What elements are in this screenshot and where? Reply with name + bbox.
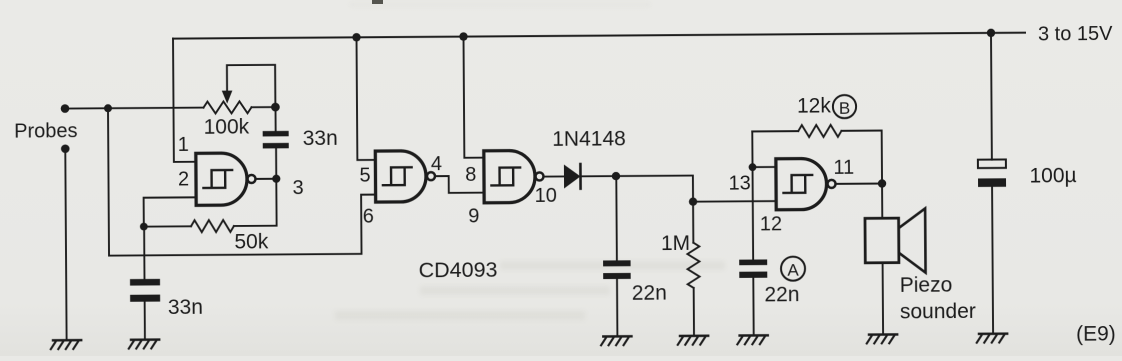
junction pin 13 node bbox=[749, 163, 757, 171]
wire 100u to ground bbox=[992, 187, 993, 334]
svg-text:10: 10 bbox=[535, 185, 557, 207]
junction rail / pin 8 branch bbox=[459, 32, 467, 40]
NAND Schmitt gate U1a body bbox=[196, 153, 247, 205]
schmitt hysteresis symbol U1c bbox=[491, 167, 520, 185]
svg-text:1: 1 bbox=[178, 134, 189, 156]
wire 1M node to pin 12 bbox=[693, 200, 776, 203]
NAND Schmitt gate U1d body bbox=[776, 158, 827, 209]
svg-text:Probes: Probes bbox=[14, 120, 78, 142]
gate U1a output bubble bbox=[247, 175, 255, 183]
svg-text:100µ: 100µ bbox=[1029, 164, 1076, 187]
NAND Schmitt gate U1c body bbox=[484, 150, 535, 202]
svg-text:CD4093: CD4093 bbox=[419, 258, 498, 283]
svg-text:8: 8 bbox=[465, 164, 476, 186]
junction 100k right node bbox=[271, 103, 280, 112]
wire 100k to right node bbox=[251, 106, 275, 108]
junction diode output node bbox=[612, 172, 620, 180]
wire probe node to gate2 pin 6 bbox=[108, 106, 376, 255]
wire rail to pin 8 bbox=[464, 36, 484, 157]
wire diode node to 22n bbox=[615, 176, 618, 260]
ground (lower probe) bbox=[51, 340, 81, 349]
capacitor 33n upper plate 2 bbox=[263, 143, 289, 149]
svg-text:6: 6 bbox=[363, 206, 374, 228]
capacitor 22n plate 1 bbox=[603, 260, 631, 266]
gate U1c output bubble bbox=[535, 172, 543, 180]
svg-text:Piezo: Piezo bbox=[900, 274, 953, 297]
resistor 12k bbox=[798, 125, 841, 137]
svg-text:1M: 1M bbox=[661, 232, 690, 255]
circled label B bbox=[833, 95, 856, 118]
junction pin2 / 50k node bbox=[140, 223, 148, 231]
capacitor 22n A plate 1 bbox=[739, 259, 767, 265]
svg-text:B: B bbox=[839, 99, 850, 118]
schmitt hysteresis symbol U1a bbox=[203, 170, 232, 188]
svg-text:sounder: sounder bbox=[900, 300, 976, 324]
potentiometer wiper arm wire bbox=[227, 65, 275, 108]
wire 1M to ground bbox=[693, 288, 695, 336]
svg-text:12: 12 bbox=[760, 213, 782, 235]
ground (22n A) bbox=[737, 335, 767, 344]
wire 1M node to resistor bbox=[692, 202, 694, 243]
svg-text:1N4148: 1N4148 bbox=[552, 127, 626, 151]
ground (piezo) bbox=[867, 334, 897, 343]
wire 12k left bbox=[752, 130, 798, 132]
wire 22n to ground bbox=[616, 279, 618, 336]
wire gate2 output jog to pin 9 bbox=[435, 176, 484, 193]
wire output node to piezo bbox=[881, 184, 883, 219]
wiper arrowhead bbox=[222, 91, 233, 104]
wire pin13 node vertical 12k-to-22nA bbox=[751, 131, 754, 259]
wire 12k right to output node bbox=[841, 131, 882, 184]
svg-text:22n: 22n bbox=[764, 283, 799, 306]
svg-text:(E9): (E9) bbox=[1076, 322, 1116, 345]
piezo sounder cone bbox=[899, 208, 926, 272]
junction 1M top node bbox=[689, 197, 697, 205]
circled label A bbox=[781, 257, 805, 281]
wire rail to 100u bbox=[990, 33, 993, 160]
+V supply rail bbox=[173, 33, 1025, 39]
svg-text:2: 2 bbox=[178, 168, 189, 190]
svg-text:33n: 33n bbox=[303, 127, 338, 150]
ground (22n) bbox=[601, 336, 631, 345]
wire diode node to 1M node bbox=[616, 176, 693, 203]
capacitor 100u positive plate (outline) bbox=[978, 159, 1006, 168]
capacitor 100u negative plate bbox=[978, 178, 1006, 187]
schmitt hysteresis symbol U1d bbox=[783, 175, 812, 193]
wire pin 13 bbox=[753, 166, 776, 168]
wire piezo to ground bbox=[882, 263, 885, 335]
svg-text:11: 11 bbox=[833, 157, 854, 179]
svg-text:A: A bbox=[787, 261, 799, 280]
potentiometer 100k body bbox=[203, 101, 251, 113]
wire lower probe to ground bbox=[65, 149, 66, 340]
svg-text:3 to 15V: 3 to 15V bbox=[1038, 23, 1113, 46]
junction gate4 output node bbox=[878, 179, 886, 187]
svg-text:3: 3 bbox=[292, 177, 303, 199]
svg-text:4: 4 bbox=[431, 153, 442, 175]
resistor 1M bbox=[687, 243, 699, 288]
wire node 3 down to 50k bbox=[234, 179, 277, 226]
capacitor 22n plate 2 bbox=[603, 273, 631, 279]
diode 1N4148 cathode bar bbox=[579, 164, 582, 189]
svg-text:100k: 100k bbox=[204, 116, 250, 139]
ground (1M) bbox=[678, 336, 708, 345]
ground (100u) bbox=[977, 334, 1007, 343]
resistor 50k bbox=[191, 220, 234, 232]
wire diode to node bbox=[580, 175, 615, 177]
wire 100k node to 33n upper bbox=[274, 107, 276, 131]
NAND Schmitt gate U1b body bbox=[375, 151, 426, 202]
capacitor 33n upper plate 1 bbox=[263, 131, 289, 137]
capacitor 33n lower plate 1 bbox=[130, 279, 160, 286]
svg-text:5: 5 bbox=[359, 164, 370, 186]
ground (33n lower) bbox=[129, 340, 159, 349]
junction rail / pin 5 branch bbox=[352, 33, 360, 41]
svg-text:33n: 33n bbox=[168, 296, 203, 319]
probe terminal upper bbox=[61, 104, 70, 113]
piezo sounder body bbox=[865, 218, 899, 263]
wire 50k to pin2 node bbox=[144, 225, 191, 227]
svg-text:22n: 22n bbox=[632, 281, 667, 304]
gate U1b output bubble bbox=[427, 172, 435, 180]
wire upper probe to 100k bbox=[65, 107, 203, 110]
wire gate4 output bbox=[835, 183, 882, 185]
wire 33n lower to ground bbox=[144, 302, 146, 340]
junction rail / 100u branch bbox=[987, 29, 995, 37]
wire rail to pin 5 bbox=[357, 37, 376, 160]
svg-text:12k: 12k bbox=[797, 95, 832, 118]
wire 33n upper to node 3 bbox=[275, 148, 277, 178]
gate U1d output bubble bbox=[828, 180, 836, 188]
svg-text:13: 13 bbox=[728, 172, 750, 194]
svg-text:9: 9 bbox=[468, 206, 479, 228]
wire pin2 node to 33n lower bbox=[143, 227, 145, 279]
wire gate1 output to node 3 bbox=[256, 178, 277, 180]
schmitt hysteresis symbol U1b bbox=[383, 167, 412, 185]
wire pin 2 bbox=[144, 197, 197, 226]
diode 1N4148 triangle bbox=[564, 164, 581, 188]
capacitor 22n A plate 2 bbox=[739, 272, 767, 278]
wire rail left drop to pin 1 bbox=[173, 38, 196, 161]
junction probe node bbox=[104, 104, 112, 112]
wire 22nA to ground bbox=[752, 278, 754, 336]
junction node 3 bbox=[272, 175, 280, 183]
probe terminal lower bbox=[61, 144, 70, 153]
capacitor 33n lower plate 2 bbox=[130, 295, 160, 302]
svg-text:50k: 50k bbox=[234, 231, 269, 254]
wire gate3 output to diode bbox=[543, 175, 563, 177]
